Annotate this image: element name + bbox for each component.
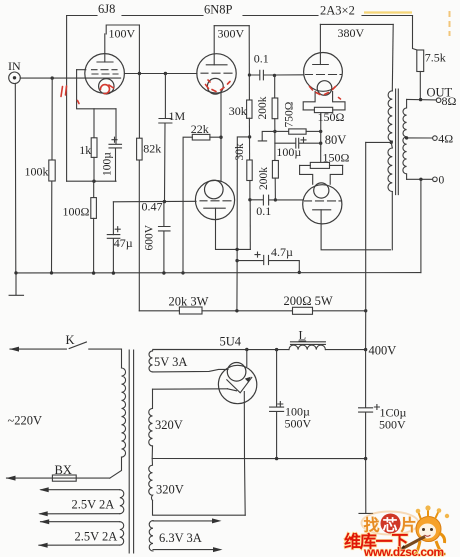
6J8 plate lead to 100V <box>104 34 106 62</box>
resistor 200R 5W <box>293 307 313 314</box>
6J8 cathode stub <box>77 69 86 71</box>
6N8P-1 grid dashes <box>201 72 232 74</box>
wire: 22k leads <box>183 137 221 273</box>
svg-text:5V 3A: 5V 3A <box>154 355 187 369</box>
2A3-2 plate lead down to OPT <box>321 210 390 250</box>
svg-text:100V: 100V <box>109 27 136 41</box>
wire: 320V-1 plate line <box>153 388 228 390</box>
wire: B+ to center tap <box>366 141 392 143</box>
wire: 150R-2 end leads <box>300 164 343 166</box>
PT 320V winding 2 <box>149 459 153 501</box>
OPT secondary winding <box>403 99 407 179</box>
svg-text:150Ω: 150Ω <box>318 110 345 124</box>
red watermark strokes over 6J8 <box>61 86 67 97</box>
wire: row A stub with bar terminal <box>258 131 275 141</box>
svg-text:~220V: ~220V <box>8 414 43 428</box>
wire: fuse line with arrow <box>7 477 110 479</box>
PT 5V winding <box>149 351 153 372</box>
wire: 0 terminal down to ground rail <box>420 179 422 272</box>
plus sign 4.7u <box>255 252 260 257</box>
node: 100V/82k column <box>138 72 141 75</box>
node: row A right <box>319 130 322 133</box>
svg-text:8Ω: 8Ω <box>442 94 457 108</box>
node: 22k ground <box>181 271 184 274</box>
svg-text:2.5V 2A: 2.5V 2A <box>72 498 115 512</box>
svg-text:300V: 300V <box>218 27 245 41</box>
node: 4R tap <box>405 136 408 139</box>
wire: input to 6J8 grid <box>20 77 120 79</box>
wire: 200k-2 bottom <box>274 178 276 200</box>
wire: 300V column down to 30k <box>248 26 250 100</box>
ground rail <box>16 272 421 274</box>
svg-text:200Ω 5W: 200Ω 5W <box>284 294 333 308</box>
top rail (B+ / feedback bus) <box>67 15 413 17</box>
svg-text:2.5V 2A: 2.5V 2A <box>75 530 118 544</box>
wire: 200k-2 <box>274 159 276 162</box>
resistor 100k <box>49 160 55 181</box>
100V annotation bracket <box>106 25 139 34</box>
ground (main) <box>359 459 373 514</box>
mascot face <box>419 524 436 539</box>
node: 30k/30k junction <box>248 135 251 138</box>
capacitor 0.1 (lower coupling) <box>250 195 276 205</box>
node: 0.1 row tee <box>248 73 251 76</box>
red watermark dashes over 6N8P-1 <box>206 80 231 92</box>
wire: 200k-1 bottom <box>274 119 276 160</box>
svg-text:K: K <box>66 333 75 347</box>
terminal 0 <box>433 177 438 182</box>
wire: 20k line <box>139 310 292 312</box>
tube 6N8P triode 2 envelope (inverted) <box>195 180 234 219</box>
node: 100u-3 top <box>275 348 278 351</box>
6N8P-2 plate bar <box>204 207 225 209</box>
wire: 100R top <box>93 181 95 197</box>
5U4 plate chevrons <box>227 377 252 392</box>
plus sign <box>278 402 283 407</box>
tube 6J8 envelope <box>85 54 125 94</box>
svg-text:500V: 500V <box>379 418 406 432</box>
wire: HT center tap line <box>152 446 365 459</box>
wire: 200k-1 top lead <box>274 75 276 98</box>
2A3-2 grid dashes <box>305 200 341 202</box>
svg-text:L: L <box>299 329 307 343</box>
node: 22k junction <box>219 136 222 139</box>
wire: primary bottom lead <box>391 192 393 250</box>
6J8 grids (dashed) <box>92 70 119 74</box>
resistor 150R hum-balance lower <box>310 162 329 168</box>
capacitor 100u (80V) <box>275 138 321 148</box>
svg-text:6N8P: 6N8P <box>204 3 233 17</box>
terminal 8R <box>436 98 441 103</box>
choke core bars <box>291 342 326 345</box>
node: plate row / inverter column <box>235 248 238 251</box>
wire: 400V top line <box>153 349 366 351</box>
svg-text:1M: 1M <box>169 109 186 123</box>
watermark mascot head <box>416 517 441 542</box>
PT 2.5V winding 2 <box>120 522 124 545</box>
node: input / 100k junction <box>51 76 54 79</box>
2A3-1 filament leads <box>303 92 345 110</box>
svg-text:150Ω: 150Ω <box>323 151 350 165</box>
svg-text:400V: 400V <box>369 344 397 358</box>
wire: 2.5V-1 leads with arrows <box>40 490 120 514</box>
wire: 400V riser column <box>365 142 367 349</box>
svg-text:4Ω: 4Ω <box>438 132 453 146</box>
wire: 320V-2 bottom to 5U4 <box>153 500 246 515</box>
node: hum tap / 100u right <box>319 142 322 145</box>
6J8 cathode bump <box>99 79 114 94</box>
watermark stamp ring <box>362 512 419 535</box>
node: 400V <box>364 348 367 351</box>
wire: to 2A3-2 grid <box>275 199 303 201</box>
node: 7.5k / 8R junction <box>419 98 422 101</box>
wire: 750R to hum tap <box>306 130 321 132</box>
wire: 5U4 top lead <box>246 350 248 367</box>
wire: 200R to 400V column <box>313 310 366 312</box>
2A3-2 filament bump (top) <box>314 183 329 198</box>
wire: 150R end leads <box>303 109 345 111</box>
tube 5U4 envelope <box>218 365 256 403</box>
wire: primary tap jog <box>391 141 392 148</box>
capacitor 4.7u <box>237 255 299 272</box>
wire: 100k column <box>51 78 54 273</box>
svg-text:2A3×2: 2A3×2 <box>320 4 355 18</box>
6N8P-2 cathode bump (top) <box>205 180 224 199</box>
tube 2A3 upper envelope <box>304 53 343 92</box>
svg-text:0.47: 0.47 <box>142 200 163 214</box>
wire: 5V bottom to 5U4 filament <box>153 369 229 372</box>
node: 4.7u row <box>235 259 238 262</box>
svg-text:IN: IN <box>8 59 21 73</box>
6N8P-2 grid dashes <box>200 200 231 202</box>
2A3-1 plate lead / 380V bracket left <box>319 24 321 64</box>
wire: 30k bottom to 0.1 row <box>249 181 251 200</box>
yellow watermark underline near 2A3x2 <box>364 11 412 13</box>
wire: 6J8 plate wire right <box>124 73 197 75</box>
node: 1M tap <box>164 72 167 75</box>
wire: 30k chain <box>248 118 250 160</box>
yellow watermark dashes top right <box>449 11 451 36</box>
6N8P-1 plate bar <box>206 64 227 66</box>
5U4 right plate arrowhead <box>245 377 251 382</box>
svg-text:6.3V 3A: 6.3V 3A <box>159 531 202 545</box>
node: 400V column tee <box>364 309 367 312</box>
node: rail dots <box>14 271 17 274</box>
resistor 7.5k <box>417 50 424 72</box>
svg-text:100µ: 100µ <box>276 145 301 159</box>
plus sign <box>374 405 379 410</box>
mascot body/legs <box>416 541 443 554</box>
capacitor 47u <box>107 235 120 274</box>
resistor 200k upper <box>272 98 278 119</box>
wire: 47u column top <box>112 202 114 235</box>
capacitor 100u (cathode) <box>109 109 122 181</box>
6J8 plate <box>97 61 113 63</box>
capacitor 100u-4 <box>359 350 373 459</box>
wire: hum tap down <box>320 113 322 163</box>
wire: cathode down <box>77 70 116 109</box>
PT 6.3V winding <box>149 521 153 551</box>
6N8P-1 cathode bump <box>207 78 223 94</box>
OPT primary top lead (380V bracket right) <box>391 24 394 90</box>
svg-text:600V: 600V <box>144 224 156 250</box>
5U4 bottom lead <box>243 392 246 516</box>
svg-text:200k: 200k <box>257 96 269 119</box>
switch blade <box>69 342 86 349</box>
capacitor 1M coupling <box>159 74 172 202</box>
node: inverter feed <box>235 309 238 312</box>
PT 2.5V winding 1 <box>120 490 124 514</box>
resistor 100R <box>91 198 97 219</box>
svg-text:380V: 380V <box>338 26 365 40</box>
2A3-2 plate bar <box>313 209 331 211</box>
wire: down to plate row <box>249 200 251 250</box>
node: primary center tap <box>390 141 393 144</box>
wire: 2A3-2 filament network <box>300 165 343 184</box>
svg-text:47µ: 47µ <box>114 236 133 250</box>
wire: stub to inverter column <box>237 137 250 311</box>
plus sign 100u <box>112 137 117 142</box>
node: 5U4 cathode lead <box>245 348 248 351</box>
OPT primary winding upper <box>388 91 392 141</box>
input jack <box>9 72 21 84</box>
svg-text:6J8: 6J8 <box>98 2 115 16</box>
wire: 100R to ground rail <box>93 218 95 273</box>
svg-text:82k: 82k <box>143 142 161 156</box>
wire: 2.5V-2 leads with arrows <box>39 522 120 546</box>
wire: 6.3V leads with right arrows <box>153 521 214 550</box>
node: 4.7u ground <box>298 271 301 274</box>
wire: left feedback riser <box>66 16 68 182</box>
PT core <box>129 350 133 553</box>
node: row A junction <box>273 130 276 133</box>
svg-text:1k: 1k <box>79 143 91 157</box>
svg-text:750Ω: 750Ω <box>283 102 295 128</box>
resistor 82k <box>137 138 143 160</box>
tube 2A3 lower envelope (inverted) <box>303 185 342 224</box>
resistor 750R <box>289 129 306 134</box>
svg-text:500V: 500V <box>285 417 312 431</box>
resistor 30k lower <box>247 160 252 181</box>
fuse BX <box>52 475 76 481</box>
node: 0 tap / ground column <box>419 178 422 181</box>
2A3-1 filament bump <box>317 81 332 96</box>
wire: row A to 750R <box>275 130 289 132</box>
choke L winding <box>289 345 325 350</box>
svg-text:320V: 320V <box>156 483 184 497</box>
svg-text:200k: 200k <box>258 167 270 190</box>
mains arrow <box>10 348 66 350</box>
svg-text:80V: 80V <box>325 133 347 147</box>
capacitor 0.47 600V <box>159 202 171 274</box>
wire: 1k bottom lead <box>93 157 95 181</box>
svg-text:0: 0 <box>439 175 445 187</box>
svg-text:0.1: 0.1 <box>254 52 269 66</box>
380V annotation bracket <box>320 23 393 25</box>
OPT primary winding lower <box>388 148 392 192</box>
svg-text:0.1: 0.1 <box>256 204 271 218</box>
wire: 1k top lead <box>93 109 95 138</box>
PT 320V winding 1 <box>149 389 153 446</box>
wire: 82k bottom long column <box>138 160 140 311</box>
wire: switch to primary <box>89 349 122 368</box>
6N8P-1 plate lead up <box>213 26 215 65</box>
wire: 4R tap <box>407 137 433 139</box>
node: 0.1-2 right <box>274 198 277 201</box>
watermark stamp red disc <box>381 514 401 534</box>
300V annotation bracket <box>214 25 249 27</box>
plus sign 47u <box>115 227 120 232</box>
node: cathode bias junction <box>92 180 95 183</box>
wire: primary bottom to fuse line <box>110 457 122 478</box>
resistor 22k <box>192 134 210 140</box>
mascot crown prongs <box>419 510 439 520</box>
resistor 200k lower <box>272 161 278 179</box>
2A3-1 plate bar <box>313 64 329 66</box>
red watermark dashes over 2A3-1 <box>310 87 341 100</box>
capacitor 100u-3 <box>270 350 284 459</box>
wire: feedback to cathode junction <box>67 180 116 182</box>
resistor 150R hum-balance upper <box>314 107 332 112</box>
6N8P-2 plate lead down <box>216 208 251 249</box>
svg-text:www.dzsc.com: www.dzsc.com <box>363 545 444 557</box>
svg-text:22k: 22k <box>191 122 209 136</box>
svg-text:30k: 30k <box>229 104 247 118</box>
ground (input) <box>9 273 23 295</box>
svg-text:5U4: 5U4 <box>220 335 242 349</box>
svg-text:100k: 100k <box>25 165 49 179</box>
svg-text:7.5k: 7.5k <box>425 51 446 65</box>
wire: 100V column down <box>138 25 140 138</box>
wire: 8R tap <box>407 98 437 101</box>
wire: cathode chain 6N8P1 to 6N8P2 <box>220 93 222 182</box>
resistor 1k <box>91 138 97 158</box>
wire: 0.1 row to 2A3 grid <box>275 74 305 76</box>
node: 200k top <box>273 74 276 77</box>
capacitor 0.1 (upper coupling) <box>249 70 274 80</box>
wire: jack shield down <box>14 84 17 273</box>
svg-text:30k: 30k <box>234 143 246 161</box>
node: 0.1-2 left <box>248 198 251 201</box>
wire: rail right end down to 7.5k <box>413 16 421 52</box>
node: 1M / 0.47 junction <box>163 200 166 203</box>
mascot brush <box>403 537 426 549</box>
svg-text:芯: 芯 <box>383 516 398 534</box>
terminal 4R <box>433 136 438 141</box>
wire: 7.5k to OUT junction <box>419 72 421 100</box>
output transformer core <box>396 89 399 195</box>
2A3-1 grid dashes <box>306 74 342 76</box>
resistor 20k 3W <box>179 307 202 314</box>
plus sign <box>301 137 306 142</box>
mascot arm right <box>439 533 445 543</box>
svg-text:20k 3W: 20k 3W <box>169 295 209 309</box>
tube 6N8P triode 1 envelope <box>197 54 236 93</box>
grid row of 6N8P-2 <box>113 200 196 203</box>
svg-text:100µ: 100µ <box>102 152 114 176</box>
node: center tap dots <box>275 457 278 460</box>
svg-text:320V: 320V <box>155 418 183 432</box>
svg-text:100Ω: 100Ω <box>63 205 90 219</box>
PT primary winding <box>122 368 126 457</box>
5U4 filament bump <box>227 363 246 382</box>
resistor 30k upper <box>247 100 252 118</box>
wire: 0 tap <box>407 178 433 180</box>
svg-text:4.7µ: 4.7µ <box>271 245 293 259</box>
